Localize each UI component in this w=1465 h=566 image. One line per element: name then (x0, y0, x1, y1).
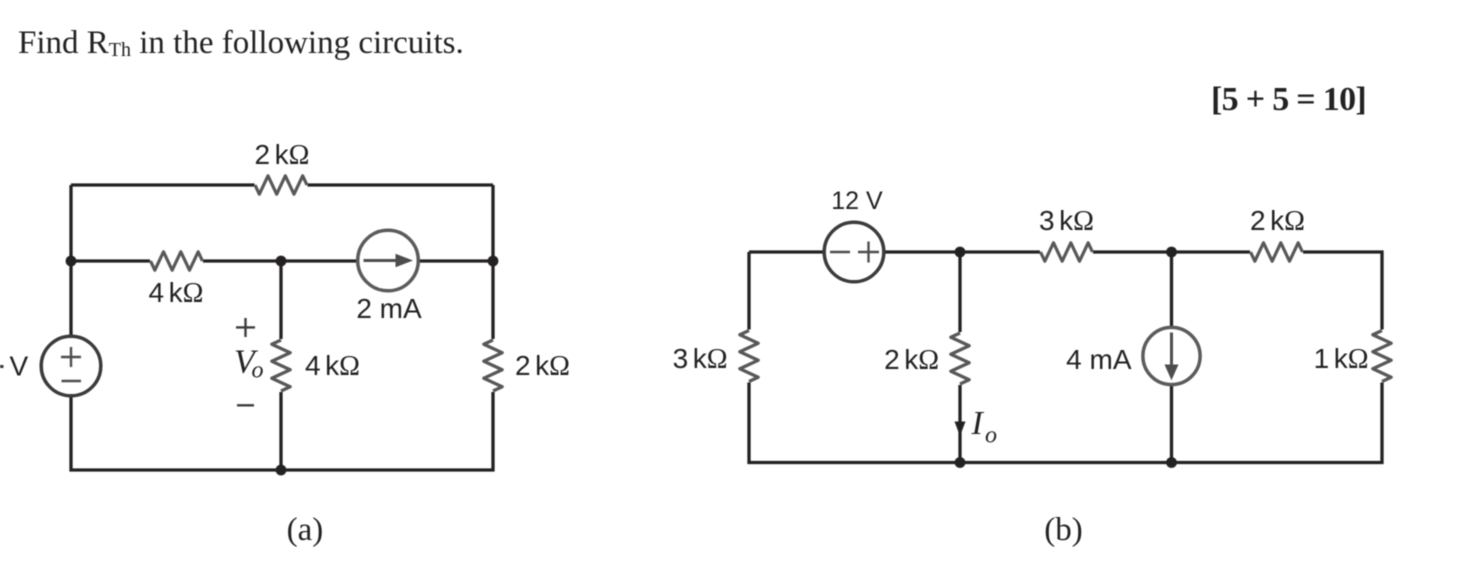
svg-text:I: I (971, 405, 985, 442)
svg-text:Find RTh in the following circ: Find RTh in the following circuits. (18, 25, 464, 61)
svg-text:2kΩ: 2kΩ (884, 344, 939, 376)
svg-text:2 mA: 2 mA (356, 293, 422, 324)
svg-text:4 mA: 4 mA (1066, 344, 1132, 375)
svg-text:2kΩ: 2kΩ (255, 139, 310, 171)
svg-text:4kΩ: 4kΩ (149, 277, 204, 309)
svg-text:[5 + 5 = 10]: [5 + 5 = 10] (1211, 81, 1366, 118)
svg-text:4kΩ: 4kΩ (305, 350, 360, 382)
svg-text:2kΩ: 2kΩ (1250, 205, 1305, 237)
svg-text:o: o (252, 358, 264, 384)
svg-text:3kΩ: 3kΩ (1039, 205, 1094, 237)
svg-text:3kΩ: 3kΩ (673, 343, 728, 375)
svg-text:(b): (b) (1044, 512, 1082, 548)
svg-text:1kΩ: 1kΩ (1314, 343, 1369, 375)
svg-text:12 V: 12 V (831, 187, 883, 215)
svg-text:V: V (10, 351, 29, 382)
svg-text:(a): (a) (287, 512, 324, 548)
svg-text:2kΩ: 2kΩ (515, 350, 570, 382)
svg-text:o: o (985, 423, 997, 449)
